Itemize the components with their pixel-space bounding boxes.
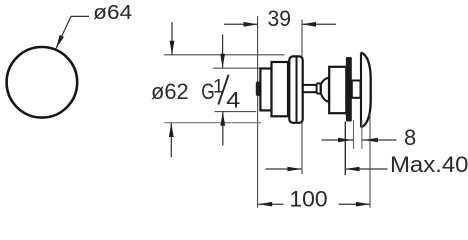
svg-text:Max.40: Max.40 xyxy=(390,152,468,177)
valve: left stem nub (filled) xyxy=(256,82,260,97)
ext line 8-left (x=353.5) xyxy=(353,120,355,149)
dim 39 left arrowhead xyxy=(244,22,258,27)
dim G1 1/4 bottom arrow line xyxy=(222,112,224,146)
valve: flange plate (rounded) xyxy=(289,56,302,122)
dim 39 left tail xyxy=(224,23,258,25)
dim ø62 top arrow line xyxy=(171,22,173,55)
valve: cap nut xyxy=(352,81,361,98)
dim G1 1/4 top arrowhead (down) xyxy=(220,54,225,68)
dim 100 right tail xyxy=(339,203,370,205)
valve: block xyxy=(329,67,346,113)
dim Max.40 right tail xyxy=(346,168,388,170)
extension line right of 39 dim (x=302 top) xyxy=(301,20,303,57)
dim 100 left tail xyxy=(258,203,283,205)
dim G1 1/4 top arrow line xyxy=(222,35,224,68)
svg-text:39: 39 xyxy=(268,6,292,31)
extension line left (x=257.5 full height) xyxy=(257,16,259,208)
valve: bell flare xyxy=(321,78,329,102)
ext line cap face (x=345.3 below) xyxy=(344,122,346,176)
valve: cap plate (dark bar) xyxy=(346,57,352,122)
fraction slash xyxy=(218,75,228,105)
dim 8 right tail xyxy=(362,139,397,141)
ext line C: thread bottom level xyxy=(215,111,257,113)
dim 8 left arrowhead xyxy=(338,138,352,143)
ext line B: thread top level xyxy=(213,67,261,69)
dim 39 right tail xyxy=(302,23,336,25)
dim Max.40 left tail xyxy=(266,168,302,170)
leader arrowhead xyxy=(56,35,64,49)
dim 8 right arrowhead xyxy=(364,138,378,143)
ext line D: plate bottom level xyxy=(164,122,261,124)
valve: rod knob xyxy=(317,83,321,93)
dim 8 left tail xyxy=(322,139,354,141)
svg-text:ø62: ø62 xyxy=(151,79,189,104)
svg-text:ø64: ø64 xyxy=(93,1,132,24)
dim 39 right arrowhead xyxy=(302,22,316,27)
valve: stem rod bottom line xyxy=(303,91,318,93)
dim ø62 bottom arrow line xyxy=(170,123,172,157)
valve: stem rod top line xyxy=(303,84,318,86)
valve: dome left edge xyxy=(360,52,362,127)
svg-text:100: 100 xyxy=(289,186,327,211)
svg-text:4: 4 xyxy=(226,87,240,112)
dim Max.40 left arrowhead xyxy=(287,167,301,172)
dim 100 left arrowhead (points left) xyxy=(258,202,272,207)
extension line below plate (x=302 bottom) xyxy=(301,123,303,174)
circle: plug face view (ø64) xyxy=(7,47,78,118)
leader line for ø64 xyxy=(56,16,89,48)
dim Max.40 right arrowhead xyxy=(346,167,360,172)
dim ø62 top arrowhead (down) xyxy=(170,41,175,55)
valve: dome arc xyxy=(361,52,371,127)
dim G1 1/4 bottom arrowhead (up) xyxy=(220,112,225,126)
dim 100 right arrowhead (points right) xyxy=(356,202,370,207)
ext line A: plate top level xyxy=(164,54,285,56)
ext line dome right (x=370 down to 100 dim) xyxy=(369,115,371,208)
dim ø62 bottom arrowhead (up) xyxy=(169,123,174,137)
valve: main body rectangle xyxy=(272,62,289,116)
svg-text:8: 8 xyxy=(404,125,416,150)
ext line 8-right (x=361.9) xyxy=(361,120,363,149)
valve: flange plate inner face line xyxy=(296,57,298,123)
valve: threaded section rectangle xyxy=(260,69,271,111)
